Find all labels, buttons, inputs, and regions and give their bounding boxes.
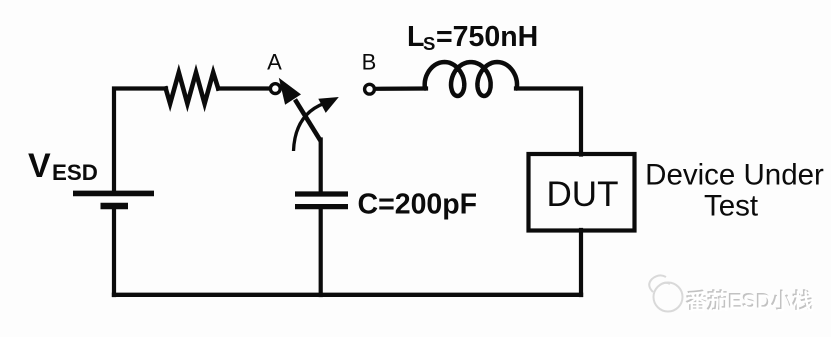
wire battery negative down <box>112 207 116 295</box>
switch blade SW1 <box>279 78 321 141</box>
DUT box <box>529 154 635 231</box>
label LS=750nH <box>407 21 538 54</box>
label B <box>362 50 377 75</box>
battery V_ESD positive plate <box>73 191 154 197</box>
watermark logo tomato <box>649 275 682 311</box>
wire inductor to DUT top <box>516 89 581 155</box>
node A terminal circle <box>270 84 280 94</box>
watermark text <box>685 289 815 315</box>
svg-text:C=200pF: C=200pF <box>358 189 478 221</box>
wire node B to inductor <box>375 86 426 91</box>
capacitor C bottom plate <box>295 204 348 209</box>
node B terminal circle <box>365 84 375 94</box>
wire from battery positive up to resistor <box>114 89 166 194</box>
svg-text:DUT: DUT <box>547 175 619 214</box>
label Device Under Test <box>645 159 824 223</box>
wire DUT bottom to rail <box>579 230 583 295</box>
label DUT <box>547 175 619 214</box>
wire switch pole down to capacitor <box>319 140 323 193</box>
label C=200pF <box>358 189 478 221</box>
label V_ESD <box>28 147 98 185</box>
label A <box>267 50 282 75</box>
svg-text:番茄ESD小栈: 番茄ESD小栈 <box>686 290 814 314</box>
wire capacitor bottom down <box>319 207 323 295</box>
battery V_ESD negative plate <box>101 203 129 210</box>
wire bottom return rail <box>114 293 581 297</box>
svg-text:ESD: ESD <box>52 160 98 185</box>
svg-text:S: S <box>423 33 435 54</box>
svg-text:B: B <box>362 50 377 75</box>
svg-text:L: L <box>407 21 424 53</box>
svg-text:Device Under: Device Under <box>645 159 824 192</box>
svg-text:A: A <box>267 50 282 75</box>
capacitor C top plate <box>295 191 348 196</box>
svg-text:Test: Test <box>704 190 758 223</box>
wire resistor to node A <box>218 86 269 90</box>
svg-text:=750nH: =750nH <box>436 21 538 53</box>
switch motion arrow <box>294 97 339 151</box>
inductor LS coil <box>425 62 517 96</box>
svg-text:V: V <box>28 147 51 185</box>
resistor R1 <box>166 73 219 104</box>
